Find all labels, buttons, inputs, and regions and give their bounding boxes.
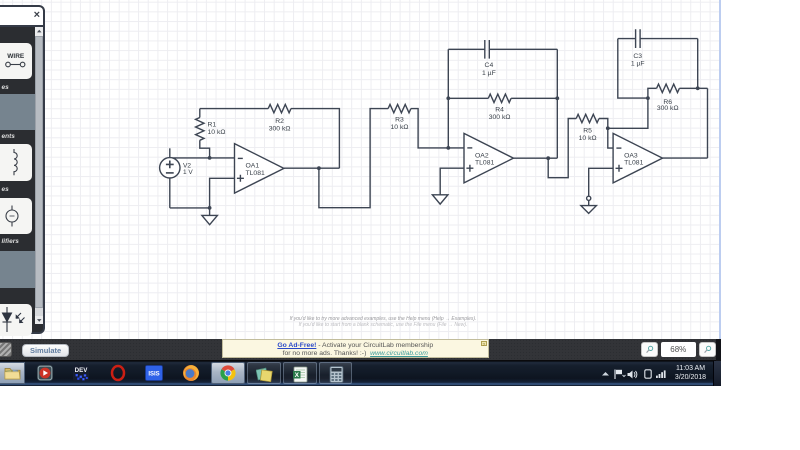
- WIRE tool button: [0, 43, 32, 79]
- svg-text:OA1: OA1: [246, 163, 260, 170]
- resistor R1: [196, 109, 210, 158]
- svg-text:OA3: OA3: [624, 152, 638, 159]
- category header "ents": [0, 130, 35, 143]
- media player icon: [37, 365, 53, 381]
- node junction R1/V2/OA1-: [208, 156, 212, 160]
- category header "es": [0, 183, 35, 196]
- wire V2 bottom to ground node: [170, 207, 210, 209]
- resistor R6: [648, 84, 708, 98]
- svg-text:300 kΩ: 300 kΩ: [269, 126, 291, 133]
- explorer folder button: [0, 362, 25, 384]
- inductor tool button: [0, 144, 32, 181]
- wire R2 feedback top: [200, 108, 268, 110]
- schematic grid canvas: [0, 0, 721, 339]
- svg-text:1 µF: 1 µF: [482, 70, 496, 77]
- wire OA3 output: [663, 157, 708, 159]
- svg-text:R1: R1: [208, 122, 217, 129]
- wire C3 loop left vertical: [618, 39, 648, 99]
- node junction R4 right: [555, 96, 559, 100]
- svg-text:10 kΩ: 10 kΩ: [391, 124, 409, 131]
- panel scrollbar: [35, 27, 44, 324]
- tray flag icon: [614, 369, 626, 379]
- svg-text:TL081: TL081: [624, 160, 643, 167]
- node terminal circle: [587, 196, 591, 200]
- dark header (empty): [0, 288, 35, 304]
- op-amp OA2: [464, 133, 513, 183]
- resistor R5: [576, 114, 599, 122]
- zoom percent box: [661, 342, 696, 358]
- sticky notes button: [247, 362, 281, 384]
- Simulate button: [22, 344, 69, 357]
- toolbox window panel: [0, 5, 45, 335]
- bottom application toolbar: [0, 339, 716, 361]
- DEV C++ icon: [73, 365, 89, 381]
- wire node to OA3 inverting input: [608, 128, 613, 148]
- wire input net V2 to OA1 inverting input: [170, 157, 235, 159]
- node junction C3 loop left: [646, 96, 650, 100]
- ground symbol G1: [202, 208, 218, 225]
- svg-text:C3: C3: [633, 53, 642, 60]
- svg-text:TL081: TL081: [475, 160, 494, 167]
- windows taskbar: [0, 361, 721, 386]
- svg-text:X: X: [295, 372, 300, 379]
- resistor R2: [268, 104, 291, 112]
- wire OA2 output to R5: [548, 119, 576, 178]
- op-amp OA1: [235, 144, 284, 194]
- panel title bar with close button: [0, 7, 43, 27]
- zoom out button: [641, 342, 658, 358]
- svg-text:300 kΩ: 300 kΩ: [657, 105, 679, 112]
- svg-text:R5: R5: [583, 128, 592, 135]
- wire node to C3 loop: [608, 98, 648, 128]
- ground symbol G3: [581, 200, 597, 213]
- node junction R4 left: [446, 96, 450, 100]
- capacitor C3: [618, 29, 698, 48]
- ISIS icon: [145, 365, 163, 381]
- svg-text:R4: R4: [495, 107, 504, 114]
- wire OA1 output: [284, 167, 340, 169]
- svg-text:10 kΩ: 10 kΩ: [579, 135, 597, 142]
- tray speaker icon: [627, 370, 638, 379]
- tray clock: [671, 364, 710, 382]
- wire feedback right to OA3 output: [707, 88, 709, 158]
- node junction C3/R6 right: [696, 86, 700, 90]
- selected blue item: [0, 94, 35, 130]
- svg-text:R3: R3: [395, 116, 404, 123]
- show desktop strip: [713, 361, 722, 386]
- resistor R4: [448, 94, 557, 102]
- wire C4 loop right: [556, 49, 558, 158]
- node junction OA2 output: [546, 156, 550, 160]
- svg-text:R2: R2: [275, 118, 284, 125]
- node junction OA1 output: [317, 166, 321, 170]
- svg-text:1 V: 1 V: [183, 169, 193, 176]
- node junction ground net: [208, 206, 212, 210]
- capacitor C4: [448, 40, 557, 59]
- svg-text:300 kΩ: 300 kΩ: [489, 114, 511, 121]
- category header (cut): [0, 27, 35, 43]
- hatched partial button: [0, 342, 12, 358]
- category header "es": [0, 82, 35, 95]
- wire OA2 output: [513, 157, 557, 159]
- resistor R3: [388, 104, 411, 112]
- node junction OA2-: [446, 146, 450, 150]
- svg-text:TL081: TL081: [246, 170, 265, 177]
- svg-text:OA2: OA2: [475, 152, 489, 159]
- wire R3 to OA2 inverting input: [411, 109, 464, 148]
- svg-text:1 µF: 1 µF: [631, 60, 645, 67]
- wire OA2 non-inverting to ground: [440, 168, 464, 195]
- Opera icon: [109, 364, 127, 382]
- ad banner: [222, 339, 489, 358]
- selected blue item 2: [0, 251, 35, 288]
- chrome button (active): [211, 362, 245, 384]
- category header "lifiers": [0, 236, 35, 247]
- Firefox icon: [182, 364, 200, 382]
- excel button: [283, 362, 317, 384]
- wire C4 loop left: [447, 49, 449, 148]
- calculator button: [319, 362, 352, 384]
- wire OA1 non-inverting input to ground net: [210, 178, 235, 208]
- svg-text:10 kΩ: 10 kΩ: [208, 129, 226, 136]
- wire C3 top right vertical: [697, 39, 699, 89]
- svg-text:C4: C4: [485, 62, 494, 69]
- wire R5 to OA3 node: [599, 119, 608, 129]
- voltage source V2: [160, 148, 180, 208]
- ground symbol G2: [432, 195, 448, 204]
- diode/LED tool button: [0, 304, 32, 336]
- wire R2 right to output: [291, 109, 339, 169]
- zoom in button: [699, 342, 716, 358]
- wire OA1 output to R3: [319, 109, 388, 208]
- op-amp OA3: [613, 133, 662, 183]
- svg-text:ISIS: ISIS: [148, 372, 159, 378]
- svg-text:DEV: DEV: [75, 367, 89, 374]
- tray network bars icon: [656, 370, 667, 378]
- wire OA3 non-inverting to node: [589, 168, 613, 196]
- tray show-hidden arrow: [601, 371, 610, 377]
- source tool button: [0, 198, 32, 234]
- node junction OA3- net: [606, 126, 610, 130]
- tray device icon: [644, 369, 652, 379]
